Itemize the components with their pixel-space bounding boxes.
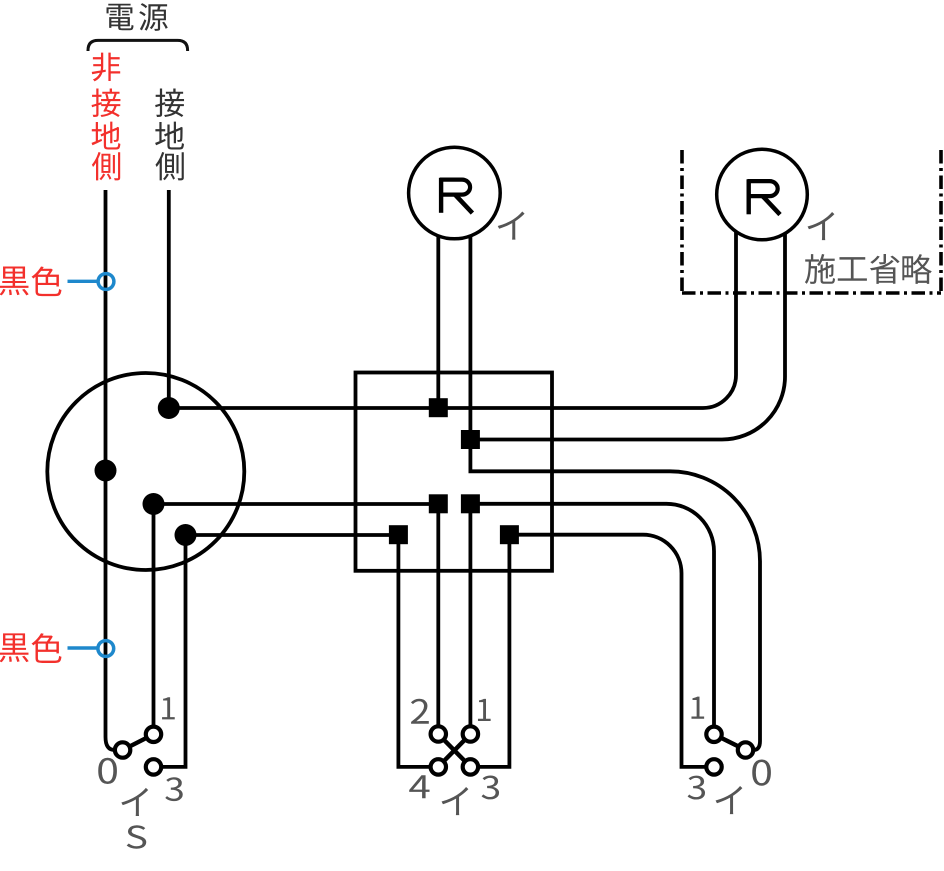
node C junction dot (175, 524, 197, 546)
label 2 (4way switch) (411, 699, 429, 724)
3way switch left: terminal 3 (146, 759, 161, 774)
4way switch: terminal 4 (431, 759, 446, 774)
label 4 (4way switch) (409, 775, 429, 798)
dash-dot boundary left side (construction omitted area) (680, 150, 684, 293)
label 電源 (power source) (107, 3, 168, 31)
blue ring marker lower (98, 641, 114, 657)
wire: terminal S6 down to 4way switch terminal 3 (479, 535, 509, 767)
wire: terminal S6 to 3way switch (right) terminal 3 (509, 535, 705, 767)
label 黒色 (black) upper (0, 267, 61, 297)
wire: neutral from node A to lamp R2 left lead (through terminal S1) (169, 232, 736, 409)
3way switch right: terminal 0 (738, 742, 753, 757)
junction box rectangle (356, 373, 553, 571)
label 3 (left switch) (165, 777, 182, 801)
3way switch left: terminal 1 (146, 727, 161, 742)
lamp R1 letter R (440, 178, 473, 213)
dash-dot boundary right side (939, 150, 943, 293)
terminal square S4 (461, 494, 480, 513)
4way switch: cross lever 2-3 (444, 740, 465, 761)
4way switch: terminal 2 (431, 726, 446, 741)
label 3 (4way switch) (482, 776, 499, 800)
label イ (4way switch) (442, 787, 469, 815)
node A junction dot (neutral) (158, 397, 180, 419)
wire: terminal S2 to lamp R2 right lead (470, 232, 785, 440)
3way switch right: lever 1-0 (721, 738, 738, 747)
wire: node C to terminal S5 (186, 533, 399, 537)
label イ for lamp R2 (808, 212, 835, 240)
3way switch left: lever 0-1 (130, 738, 147, 746)
3way switch left: terminal 0 (115, 742, 130, 757)
4way switch: terminal 3 (463, 759, 478, 774)
label S (left switch) (127, 825, 147, 849)
label イ (left switch) (121, 788, 148, 816)
label 施工省略 (construction omitted) (805, 254, 932, 284)
dash-dot boundary bottom side (682, 291, 941, 295)
wire: non-grounded (hot) vertical from source down to switch S terminal 0 (106, 190, 115, 750)
blue leader line lower (68, 646, 99, 649)
node B junction dot (143, 493, 165, 515)
wire: node C down to switch S terminal 3 (162, 535, 186, 767)
terminal square S3 (429, 494, 448, 513)
label 非接地側 (non-grounded side, red, vertical) (92, 53, 121, 181)
wire: lamp R1 right lead down to terminal S2 (468, 234, 472, 440)
label イ for lamp R1 (498, 211, 525, 239)
label イ (right switch) (716, 786, 743, 814)
label 接地側 (grounded side, vertical) (155, 88, 184, 180)
blue ring marker upper (98, 274, 114, 290)
node D junction dot (hot feed) (95, 460, 117, 482)
label 0 (right switch) (752, 759, 771, 785)
lamp R1 circle (409, 147, 501, 239)
wire: terminal S4 down to 4way switch terminal 1 (468, 504, 472, 726)
terminal square S5 (389, 525, 408, 544)
lamp R2 letter R (748, 179, 781, 214)
label 0 (left switch) (98, 758, 117, 784)
junction box circle (outlet) (47, 373, 244, 570)
blue leader line upper (68, 280, 99, 283)
label 黒色 (black) lower (0, 633, 61, 663)
4way switch: terminal 1 (463, 726, 478, 741)
label 3 (right switch) (688, 776, 705, 800)
lamp R2 circle (717, 149, 808, 240)
wire: lamp R1 left lead down to terminal S1 (436, 234, 440, 408)
3way switch right: terminal 3 (706, 759, 721, 774)
wire: node B to terminal S3 (154, 502, 439, 506)
label 1 (left switch) (162, 697, 175, 719)
terminal square S2 (461, 430, 480, 449)
3way switch right: terminal 1 (706, 727, 721, 742)
wire: terminal S2 down-right to 3way switch (right) terminal 0 (470, 448, 760, 750)
4way switch: cross lever 4-1 (444, 740, 465, 761)
wire: terminal S5 down to 4way switch terminal 4 (398, 535, 429, 767)
wire: grounded (neutral) vertical from source down to junction node A (167, 190, 171, 408)
terminal square S1 (429, 398, 448, 417)
brace under 電源 (88, 40, 188, 51)
label 1 (4way switch) (478, 699, 491, 721)
terminal square S6 (500, 525, 519, 544)
wire: terminal S3 down to 4way switch terminal 2 (436, 504, 440, 726)
wire: node B to switch S terminal 1 (152, 504, 156, 726)
wire: terminal S4 to 3way switch (right) terminal 1 (470, 504, 714, 726)
label 1 (right switch) (691, 697, 704, 719)
